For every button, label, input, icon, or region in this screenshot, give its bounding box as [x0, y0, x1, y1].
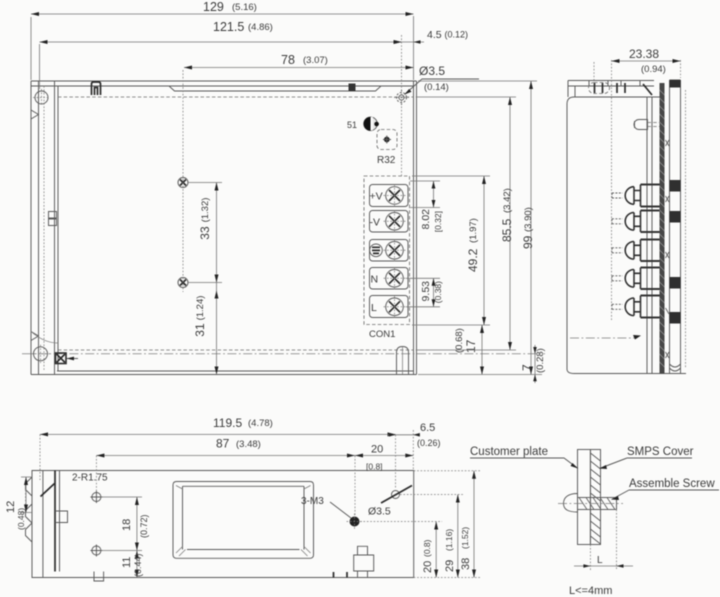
center line [22, 353, 545, 355]
svg-text:(4.78): (4.78) [248, 418, 273, 429]
screw 5 [384, 296, 406, 318]
side screw 1 [612, 187, 641, 205]
bracket mid clip [55, 511, 68, 523]
terminal cell earth [370, 240, 409, 262]
dim 20 horizontal [355, 430, 413, 472]
screw 2 [384, 210, 406, 232]
dim 9.53 [406, 278, 443, 307]
dim 11 [121, 551, 143, 578]
label 3-M3 [301, 496, 351, 518]
svg-text:121.5: 121.5 [213, 20, 244, 34]
svg-text:(0.8): (0.8) [422, 539, 432, 557]
svg-text:(0.72): (0.72) [139, 514, 149, 538]
screw 1 [384, 185, 406, 207]
svg-text:[0.32]: [0.32] [433, 211, 443, 232]
side x-mark column [666, 140, 670, 358]
svg-text:(3.90): (3.90) [523, 207, 534, 232]
svg-text:(0.12): (0.12) [445, 30, 469, 40]
svg-text:8.02: 8.02 [420, 209, 432, 230]
bracket hole bottom [32, 345, 51, 363]
svg-text:(0.94): (0.94) [641, 64, 666, 75]
svg-text:(0.48): (0.48) [16, 508, 26, 530]
svg-text:3-M3: 3-M3 [301, 496, 324, 507]
svg-text:33: 33 [198, 226, 212, 240]
M3 chassis hole lower [178, 278, 188, 288]
svg-text:(1.97): (1.97) [468, 218, 479, 243]
side pot/led [634, 120, 660, 130]
side screw 3 [612, 242, 641, 260]
LED S1 [347, 117, 379, 131]
svg-text:51: 51 [347, 120, 357, 130]
svg-text:Customer plate: Customer plate [470, 446, 548, 458]
svg-text:17: 17 [464, 339, 478, 353]
side top flange [568, 62, 654, 97]
section customer plate [578, 450, 591, 545]
dim 99 [418, 81, 542, 375]
dim 4.5 [395, 29, 469, 44]
svg-text:(1.32): (1.32) [200, 198, 211, 223]
svg-text:(0.68): (0.68) [454, 328, 465, 353]
bracket plate edge [55, 471, 60, 572]
groove latch mark [349, 84, 356, 92]
terminal cell +V [370, 185, 409, 207]
side screw 4 [612, 270, 641, 288]
svg-text:(3.42): (3.42) [502, 188, 513, 213]
svg-text:20: 20 [422, 561, 434, 573]
screw 3 [384, 239, 406, 261]
hidden cover lip lines [58, 97, 414, 350]
svg-text:(0.14): (0.14) [424, 82, 449, 93]
bottom view outline [32, 471, 414, 578]
svg-text:Ø3.5: Ø3.5 [419, 64, 445, 78]
bracket spring curve [31, 332, 58, 344]
bottom hole M3 b [90, 545, 102, 557]
svg-text:SMPS Cover: SMPS Cover [627, 446, 694, 458]
dim 20 right [360, 522, 480, 578]
bracket hole top [33, 89, 50, 106]
side back plate [670, 80, 686, 374]
bracket notch top [31, 110, 39, 119]
dim 38 right [414, 471, 480, 578]
terminal cell N [370, 268, 409, 290]
side terminal block face [641, 97, 660, 374]
svg-text:87: 87 [216, 437, 230, 451]
svg-text:(3.48): (3.48) [236, 439, 261, 450]
front view outline [31, 81, 417, 375]
svg-text:+V: +V [370, 191, 383, 203]
svg-text:L: L [371, 302, 377, 314]
potentiometer R32 [377, 130, 397, 167]
svg-text:N: N [371, 274, 379, 286]
label 2-R1.75 [41, 473, 109, 497]
svg-text:38: 38 [460, 558, 472, 570]
svg-text:(0.44): (0.44) [133, 553, 143, 577]
svg-text:31: 31 [193, 323, 207, 337]
svg-text:(5.16): (5.16) [232, 2, 257, 13]
dim 17 [454, 325, 484, 375]
svg-text:119.5: 119.5 [213, 416, 242, 430]
svg-text:L<=4mm: L<=4mm [569, 585, 612, 597]
vent window [173, 482, 314, 559]
bracket notch bottom [31, 332, 39, 341]
terminal block dashed outline [364, 176, 410, 325]
hidden line through chassis holes [182, 70, 184, 292]
ground clip [92, 82, 101, 95]
svg-text:-V: -V [370, 217, 381, 229]
dim 121.5 row [40, 20, 402, 89]
svg-text:23.38: 23.38 [629, 47, 659, 61]
side screw 2 [612, 213, 641, 231]
svg-text:49.2: 49.2 [466, 248, 480, 272]
bottom left foot tab [94, 572, 104, 582]
dim 7 [520, 345, 546, 383]
dim 23.38 [612, 47, 681, 320]
dim L [574, 510, 633, 571]
screw 4 [384, 267, 406, 289]
dim 85.5 [416, 97, 516, 350]
dim 78 [184, 35, 414, 176]
dim 6.5 [388, 422, 441, 489]
side internal split line [570, 335, 641, 340]
svg-text:7: 7 [520, 364, 534, 371]
dim 49.2 [412, 176, 490, 325]
dim 12 [5, 477, 32, 530]
svg-text:Ø3.5: Ø3.5 [368, 506, 391, 518]
svg-text:Assemble Screw: Assemble Screw [629, 478, 715, 490]
svg-text:29: 29 [444, 560, 456, 572]
svg-text:(4.86): (4.86) [248, 22, 273, 33]
bottom snap tab [334, 546, 374, 577]
label smps cover [600, 446, 694, 469]
dim 33 vertical [188, 183, 222, 283]
svg-text:78: 78 [281, 53, 295, 67]
svg-text:18: 18 [121, 519, 133, 531]
svg-text:(1.16): (1.16) [444, 529, 454, 551]
dim 119.5 [40, 416, 396, 480]
top phi3.5 hole [394, 79, 479, 105]
svg-text:20: 20 [371, 444, 383, 456]
bottom hole M3 c dark [347, 514, 363, 530]
section smps cover hatched [590, 450, 600, 545]
svg-text:9.53: 9.53 [420, 281, 432, 302]
top groove [169, 86, 381, 91]
svg-text:2-R1.75: 2-R1.75 [72, 473, 108, 484]
svg-text:[0.8]: [0.8] [366, 462, 383, 472]
dim 87 [96, 437, 355, 517]
M3 chassis hole upper [178, 178, 188, 188]
svg-text:L: L [597, 555, 603, 566]
svg-text:6.5: 6.5 [420, 422, 435, 434]
wall clip squares mid-left [49, 212, 57, 226]
dim 18 [101, 497, 149, 551]
terminal cell L [370, 296, 409, 318]
svg-text:129: 129 [203, 0, 224, 14]
bottom phi3.5 hole [368, 486, 412, 518]
label assemble screw [612, 478, 720, 500]
svg-text:(0.26): (0.26) [417, 438, 441, 448]
dim 31 vertical [193, 283, 219, 375]
svg-text:11: 11 [121, 557, 133, 568]
side screw 5 [612, 298, 641, 316]
terminal cell -V [370, 211, 409, 233]
svg-text:85.5: 85.5 [500, 218, 514, 242]
svg-text:4.5: 4.5 [427, 29, 442, 41]
section screw [558, 494, 623, 513]
svg-text:(3.07): (3.07) [303, 55, 328, 66]
bottom latch notch [397, 347, 409, 375]
svg-text:(1.24): (1.24) [195, 296, 206, 321]
svg-text:CON1: CON1 [369, 329, 395, 340]
bottom-left dark clip [56, 353, 79, 364]
svg-text:R32: R32 [377, 155, 396, 166]
dim 129 row [31, 0, 414, 80]
svg-text:(0.38): (0.38) [433, 281, 443, 303]
dim 8.02 [410, 181, 443, 232]
svg-text:(1.52): (1.52) [460, 527, 470, 549]
dim 29 right [400, 495, 463, 578]
bracket tabs left [26, 477, 33, 542]
side view body [567, 97, 686, 374]
svg-text:(0.28): (0.28) [535, 348, 546, 373]
label phi3.5 (0.14) [419, 64, 449, 93]
svg-text:99: 99 [521, 235, 535, 249]
label customer plate [470, 446, 578, 469]
bottom hole M3 a [90, 491, 102, 503]
side back wall hatched [660, 83, 665, 374]
